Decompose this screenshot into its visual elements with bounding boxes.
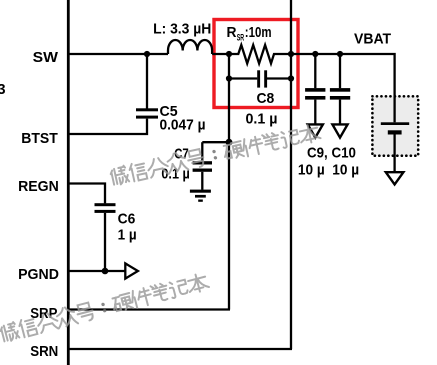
inductor L1 xyxy=(168,40,212,54)
node PGND-C6 xyxy=(102,268,109,275)
capacitor C6 xyxy=(95,203,116,206)
node C8 right xyxy=(288,75,294,81)
node C8 left xyxy=(226,75,232,81)
wire C10 lower xyxy=(339,100,341,125)
capacitor C7 xyxy=(193,161,212,164)
resistor RSR xyxy=(229,45,291,64)
node RSR right xyxy=(288,51,294,57)
wire C7 stub xyxy=(202,141,229,143)
wire PGND pin xyxy=(68,270,125,272)
battery pack outline (dotted box) xyxy=(372,96,418,155)
svg-text:0.1 µ: 0.1 µ xyxy=(246,112,278,128)
wire battery top xyxy=(393,97,395,123)
svg-text:SR: SR xyxy=(237,32,244,43)
node SW junction xyxy=(144,51,150,57)
svg-text:C9, C10: C9, C10 xyxy=(307,145,356,161)
wire C8 right xyxy=(267,77,291,79)
wire C7 lower xyxy=(201,172,203,190)
capacitor C5 xyxy=(136,108,158,111)
ground arrow C9 xyxy=(308,124,323,137)
earth ground C7 xyxy=(190,190,211,193)
wire battery lower xyxy=(393,135,395,173)
capacitor C10 xyxy=(330,88,350,92)
wire BTST pin xyxy=(68,119,147,134)
wire inductor to RSR left xyxy=(212,53,229,55)
wire SRP pin xyxy=(68,308,230,310)
ground arrow PGND (right pointing) xyxy=(125,263,138,278)
svg-text:SRN: SRN xyxy=(30,344,58,360)
wire SRN pin xyxy=(68,348,292,350)
svg-text:R: R xyxy=(227,25,237,41)
svg-text:C6: C6 xyxy=(118,211,136,227)
svg-text:3: 3 xyxy=(0,82,6,98)
ground arrow C10 xyxy=(332,124,347,137)
svg-text:1 µ: 1 µ xyxy=(118,227,137,243)
svg-text:10 µ 10 µ: 10 µ 10 µ xyxy=(298,162,359,178)
wire SW junction to inductor xyxy=(147,53,168,55)
node C9 top xyxy=(312,51,318,57)
wire vertical RSR-right / SRN net xyxy=(290,0,292,349)
watermark row 1 xyxy=(109,122,321,186)
wire C9 upper xyxy=(314,54,316,88)
svg-text:BTST: BTST xyxy=(21,131,58,147)
watermark row 2 xyxy=(0,271,210,343)
svg-text:PGND: PGND xyxy=(18,267,59,283)
wire C10 upper xyxy=(339,54,341,88)
svg-text::10m: :10m xyxy=(245,25,272,41)
wire SW pin xyxy=(68,53,147,55)
svg-text:0.047 µ: 0.047 µ xyxy=(160,118,206,134)
svg-text:VBAT: VBAT xyxy=(354,31,391,47)
wire vertical RSR-left / SRP net xyxy=(228,54,230,310)
battery cell BT1 xyxy=(381,122,409,125)
wire C7 upper xyxy=(201,142,203,161)
wire C5 branch xyxy=(146,54,148,109)
capacitor C9 xyxy=(305,88,325,92)
wire C8 left xyxy=(229,77,257,79)
svg-text:SW: SW xyxy=(33,50,58,66)
wire C6 to PGND xyxy=(104,213,106,271)
node C7-SRP xyxy=(226,139,233,146)
IC left edge xyxy=(67,0,70,365)
highlight box (red) around RSR and C8 xyxy=(214,20,298,108)
wire REGN pin xyxy=(68,184,105,204)
wire RSR right to VBAT corner xyxy=(291,54,395,97)
wire C9 lower xyxy=(314,100,316,125)
capacitor C8 xyxy=(257,70,260,87)
node RSR left xyxy=(226,51,232,57)
svg-text:REGN: REGN xyxy=(18,179,59,195)
ground arrow battery xyxy=(386,172,404,184)
node C10 top xyxy=(337,51,343,57)
svg-text:L: 3.3 µH: L: 3.3 µH xyxy=(153,22,211,38)
svg-text:C8: C8 xyxy=(257,91,275,107)
